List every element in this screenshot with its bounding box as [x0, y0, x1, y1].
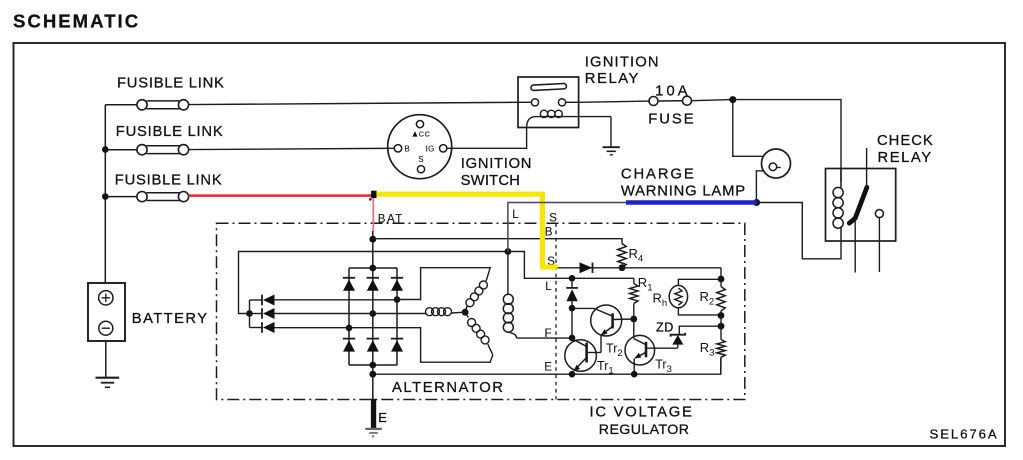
node R4 bottom [619, 264, 626, 271]
title SCHEMATIC [13, 11, 140, 32]
stator coil phase A [479, 281, 487, 289]
transistor Tr3 [625, 319, 678, 375]
node junction fusible link 3 [102, 193, 109, 200]
ground ignition relay [603, 147, 620, 155]
svg-text:10A: 10A [655, 83, 691, 100]
node E bridge junction [369, 371, 376, 378]
wire lamp node down to field coil [507, 252, 509, 295]
node L/D2 junction [569, 275, 576, 282]
svg-text:FUSIBLE LINK: FUSIBLE LINK [115, 172, 223, 188]
node Tr1 emitter on E rail [569, 371, 576, 378]
neutral diode rail [249, 300, 251, 328]
node BAT junction [369, 236, 376, 243]
diode D1 on S line [580, 262, 593, 273]
node bridge top center [369, 265, 376, 272]
transistor Tr1 [565, 339, 614, 377]
svg-text:IC VOLTAGE: IC VOLTAGE [590, 404, 694, 420]
alternator/regulator outer box [217, 223, 745, 399]
svg-text:F: F [545, 327, 552, 340]
diode bridge bottom-left [343, 338, 355, 340]
svg-text:RELAY: RELAY [878, 150, 933, 166]
svg-text:SCHEMATIC: SCHEMATIC [13, 11, 140, 32]
wire F line (field coil to Tr1 collector) [517, 337, 573, 339]
ground battery [96, 378, 120, 388]
wire junction to check relay coil top [733, 100, 841, 182]
svg-text:WARNING LAMP: WARNING LAMP [621, 184, 746, 200]
node junction fusible link 2 [102, 146, 109, 153]
node lamp/blue junction [753, 199, 760, 206]
svg-text:IGNITION: IGNITION [461, 156, 532, 172]
wire relay coil to ground [610, 117, 612, 147]
svg-text:BAT: BAT [378, 213, 404, 225]
wire fusible link 2 to ignition switch B [189, 148, 395, 149]
svg-text:FUSE: FUSE [648, 111, 695, 127]
fusible link 3 label+symbol [105, 172, 222, 201]
fusible link 1 label+symbol [105, 75, 224, 110]
svg-text:CHARGE: CHARGE [621, 167, 696, 183]
node phase C on left rail [346, 325, 353, 332]
resistor R3 [700, 316, 725, 375]
check relay U-CR box [826, 169, 896, 242]
label CHARGE WARNING LAMP [621, 167, 746, 200]
bridge top rail [349, 267, 397, 269]
wire phase B row [275, 313, 426, 315]
wire red (fusible link 3 to BAT node) [189, 194, 373, 197]
neutral diode 2 [261, 308, 263, 319]
svg-text:BATTERY: BATTERY [132, 311, 209, 327]
neutral diode 1 [261, 295, 263, 306]
check relay armature [849, 187, 867, 223]
bridge bottom rail [349, 364, 397, 366]
node fuse-out junction [729, 96, 736, 103]
wire lamp-node to neutral diodes [239, 252, 508, 314]
svg-text:REGULATOR: REGULATOR [599, 422, 690, 438]
E thick lead [371, 399, 376, 428]
svg-text:S: S [549, 211, 557, 224]
node Tr3 emitter on E rail [631, 371, 638, 378]
wire ignition switch IG to relay coil [447, 128, 527, 149]
wire phase C row [275, 327, 350, 329]
node R2 bottom [718, 312, 725, 319]
wire navy (lamp line to L) [508, 203, 627, 252]
wire D2 to Tr2 base [572, 307, 594, 309]
svg-text:E: E [544, 360, 552, 373]
wire BAT vertical [372, 231, 374, 268]
svg-text:B: B [405, 144, 410, 153]
node neutral diode center [246, 310, 253, 317]
zener diode ZD [656, 321, 721, 349]
svg-text:FUSIBLE LINK: FUSIBLE LINK [116, 124, 224, 140]
wire armature stub up [866, 148, 868, 186]
node R1 bottom / Tr2 collector / Tr3 base [630, 316, 637, 323]
svg-text:L: L [545, 280, 552, 293]
resistor R1 [630, 275, 653, 319]
bridge left rail [348, 268, 350, 365]
transistor Tr2 [591, 305, 634, 359]
bridge center rail [372, 268, 374, 365]
regulator separator dashed line [555, 223, 557, 399]
wire phase A loop [397, 268, 490, 300]
wire phase A row [275, 299, 398, 301]
wire S sense line [558, 267, 722, 269]
node phase B on center rail [370, 310, 377, 317]
wire bridge to box bottom [372, 365, 374, 400]
svg-text:IGNITION: IGNITION [585, 54, 660, 70]
wire B line (BAT to R4) [373, 239, 622, 244]
svg-text:SEL676A: SEL676A [930, 426, 999, 441]
battery [88, 283, 208, 341]
ground alternator E [365, 429, 382, 438]
svg-text:SWITCH: SWITCH [461, 173, 521, 189]
bridge right rail [396, 268, 398, 365]
svg-text:CC: CC [419, 130, 431, 139]
diode bridge top-center [367, 277, 379, 279]
diode D2 vertical [566, 278, 578, 308]
left supply bus wire (battery to fusible links) [104, 105, 106, 283]
fusible link 2 label+symbol [105, 124, 223, 155]
ignition switch U-SW [388, 115, 452, 179]
node bridge bottom center [369, 362, 376, 369]
wire contact stub down [878, 218, 880, 272]
node red/yellow junction tick [371, 191, 376, 198]
node stator star point [462, 309, 469, 316]
wire E rail [373, 358, 721, 375]
node F junction [569, 335, 576, 342]
label IC VOLTAGE REGULATOR [590, 404, 694, 437]
label CHECK RELAY [877, 133, 934, 166]
svg-text:B: B [545, 226, 553, 239]
diode bridge top-left [343, 277, 355, 279]
resistor R4 [618, 244, 643, 268]
ignition relay U-IR [518, 77, 611, 128]
fuse F1 10A [648, 83, 695, 128]
rotor field coil [503, 294, 513, 304]
wire fuse to junction [692, 100, 733, 101]
wire relay to fuse [579, 101, 650, 102]
wire blue (charge warning lamp) [626, 200, 757, 205]
diode bridge top-right [391, 277, 403, 279]
node lamp/neutral/L junction [505, 248, 512, 255]
charge warning lamp [762, 149, 791, 178]
label IGNITION RELAY [585, 54, 660, 87]
wire junction down to lamp [733, 100, 764, 157]
node ZD junction [718, 323, 725, 330]
stator coil phase B [425, 313, 426, 315]
wire armature stub down [854, 221, 856, 273]
thermistor Rh [653, 279, 722, 315]
wire L jog to regulator [508, 252, 558, 279]
neutral diode 3 [261, 322, 263, 333]
node D2 bottom [569, 305, 576, 312]
svg-text:ZD: ZD [656, 321, 674, 335]
svg-text:RELAY: RELAY [585, 71, 640, 87]
wire D2 node down to F node [571, 308, 573, 338]
diode bridge bottom-right [391, 338, 403, 340]
wire phase C loop [349, 328, 493, 363]
check relay coil [833, 169, 843, 242]
check relay contact terminal [875, 210, 883, 218]
wire yellow (to regulator S terminal) [377, 194, 558, 267]
svg-text:ALTERNATOR: ALTERNATOR [392, 380, 505, 396]
wire battery to ground [105, 341, 107, 378]
wire red BAT drop [372, 198, 374, 231]
wire blue node to check relay [757, 203, 841, 259]
diode bridge bottom-center [367, 338, 379, 340]
wire fusible link 1 to ignition relay [189, 102, 518, 104]
svg-text:FUSIBLE LINK: FUSIBLE LINK [117, 75, 225, 91]
label IGNITION SWITCH [461, 156, 533, 189]
wire S line corner to R2 top [720, 268, 722, 279]
node phase A on right rail [394, 296, 401, 303]
wire L line to R1 [558, 277, 634, 279]
resistor R2 [700, 279, 726, 316]
svg-text:IG: IG [426, 144, 435, 153]
svg-text:E: E [378, 410, 387, 425]
stator coil phase C [465, 312, 468, 317]
svg-text:S: S [418, 155, 423, 164]
svg-text:L: L [512, 208, 519, 221]
svg-text:CHECK: CHECK [877, 133, 934, 149]
node R2 top [718, 276, 725, 283]
wire lamp to blue node [756, 171, 763, 201]
